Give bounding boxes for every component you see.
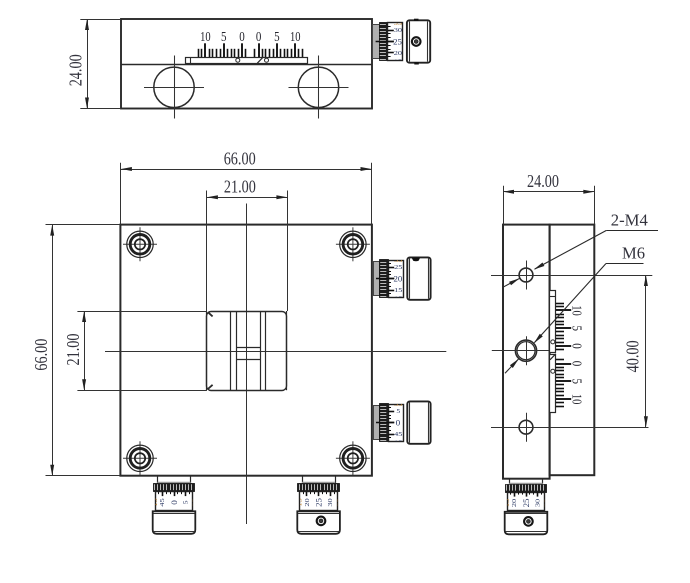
top micrometer thimble graduation band [380,23,388,61]
svg-text:10: 10 [568,394,583,405]
svg-text:20: 20 [512,499,518,507]
top view: right knob centerline vertical [318,56,320,119]
upper right micrometer knob [407,257,430,299]
svg-text:15: 15 [394,288,402,294]
front view: horizontal centerline [105,351,446,353]
svg-text:24.00: 24.00 [527,171,559,191]
right view: 24.00 dimension line [503,191,594,193]
svg-text:35: 35 [192,498,198,506]
svg-text:25: 25 [522,499,531,508]
front view: 66.00 top dimension line [121,169,372,171]
right view: 40.00 dimension line [645,275,647,427]
right view: M6 leader shoulder [606,263,644,265]
svg-text:2-M4: 2-M4 [611,210,648,229]
right view: scale index pointer [550,354,556,360]
front view: vertical centerline [246,204,248,525]
top view: scale screw left [236,58,240,62]
bottom right micrometer barrel numbers [298,498,343,507]
svg-text:M6: M6 [622,243,645,262]
right view: M6 center hole [515,340,536,361]
bottom left micrometer knob [153,511,196,534]
svg-text:5: 5 [221,30,227,45]
bottom right micrometer graduation lines [306,492,308,496]
right view: lower hole centerline [491,427,649,429]
top micrometer knob screw [412,37,421,46]
front view: 21.00 left dimension line [84,311,86,390]
svg-text:24.00: 24.00 [66,54,86,86]
svg-text:30: 30 [328,498,334,506]
svg-text:0: 0 [256,30,262,45]
top view: right knob centerline horizontal [289,87,349,89]
right view: M6 leader upper segment [534,264,606,343]
lower right micrometer knob [407,401,430,443]
lower right micrometer stem [374,406,380,440]
right view: scale screw upper [551,340,555,344]
svg-text:25: 25 [393,37,402,46]
svg-text:20: 20 [394,275,403,284]
front view: 66.00 left dimension line [52,225,54,476]
svg-text:30: 30 [536,499,542,507]
top view: plate split line [121,64,372,66]
front view: slot corner relief marks [208,312,213,316]
right view: 24.00 dimension extension lines [503,186,505,225]
right view: 2-M4 leader upper segment [535,231,607,270]
svg-text:35: 35 [544,499,550,507]
bottom right micrometer knob [297,511,340,534]
right view: scale ticks lower group [556,359,564,361]
upper right micrometer stem [374,262,380,296]
svg-text:0: 0 [568,343,583,349]
svg-text:10: 10 [290,30,301,45]
right view: 2-M4 leader shoulder [606,230,658,232]
right view bottom micrometer knob [505,512,548,535]
front view: 21.00 top dimension extension lines [206,191,208,312]
right view bottom micrometer stem [509,479,511,484]
right view: vertical scale bar upper [550,291,556,353]
right view: 2-M4 leader lower segment [503,278,520,287]
right view: vertical scale bar lower [550,355,556,413]
svg-text:21.00: 21.00 [63,334,83,366]
top view: stage body outline [121,19,372,109]
front view: stage body outline [120,225,372,476]
front view: top-right socket head screw [336,227,370,261]
right view: scale ticks upper group [556,349,564,351]
right view: 2-M4 lower hole [519,420,533,434]
svg-text:10: 10 [200,30,211,45]
svg-text:21.00: 21.00 [224,177,256,197]
top view: left knob centerline vertical [174,56,176,119]
top micrometer graduation lines [388,30,394,32]
front view: top-left socket head screw [123,227,157,261]
svg-text:30: 30 [394,28,402,34]
top view: right knob circle [298,67,338,107]
top view: scale ticks left group [245,49,247,57]
svg-text:0: 0 [170,500,179,505]
svg-text:35: 35 [394,402,402,408]
svg-text:66.00: 66.00 [31,339,51,371]
svg-text:20: 20 [394,51,402,57]
upper right micrometer thimble graduation band [380,260,389,298]
bottom left micrometer thimble graduation band [154,484,195,492]
bottom right micrometer thimble graduation band [298,484,340,492]
svg-text:0: 0 [568,361,583,367]
front view: 21.00 top dimension line [207,197,288,199]
top view: 24.00 dimension extension lines [80,19,121,21]
right view: middle hole centerline [492,350,553,352]
right view: M6 center hole vertical centerline [526,336,528,365]
right view: 2-M4 upper hole vertical centerline [526,261,528,290]
right view: base column outline [503,225,550,479]
bottom left micrometer barrel numbers [153,498,198,506]
top view: left knob centerline horizontal [144,87,204,89]
right view bottom micrometer barrel numbers [505,499,550,508]
front view: carriage guide lines [230,311,232,390]
top view: scale screw right [265,58,269,62]
svg-text:5: 5 [396,409,400,415]
svg-text:5: 5 [274,30,280,45]
svg-text:45: 45 [394,432,402,438]
right view bottom micrometer graduation lines [514,492,516,496]
lower right micrometer barrel numbers [394,402,402,446]
lower right micrometer graduation lines [388,411,394,413]
svg-text:15: 15 [505,499,511,507]
front view: bottom-right socket head screw [336,441,370,475]
svg-text:5: 5 [184,500,190,504]
bottom left micrometer graduation lines [162,492,164,496]
front view: 21.00 left dimension extension lines [77,311,207,313]
bottom right micrometer knob screw [317,517,326,526]
front view: central carriage slot rounded window [207,312,287,391]
svg-text:15: 15 [153,498,159,506]
top view: vernier scale bar [186,58,308,64]
svg-text:35: 35 [394,258,402,264]
top view: left knob circle [154,67,194,107]
front view: 66.00 left dimension extension lines [46,224,121,226]
right view: 2-M4 upper hole [519,268,533,282]
bottom right micrometer stem [302,476,304,484]
right view bottom micrometer knob screw [524,517,533,526]
right view: 2-M4 lower hole vertical centerline [526,413,528,442]
svg-text:66.00: 66.00 [224,148,256,168]
svg-text:40.00: 40.00 [623,340,643,372]
front view: 66.00 top dimension extension lines [120,163,122,225]
right view bottom micrometer thimble graduation band [506,485,547,493]
svg-text:10: 10 [568,305,583,316]
top view: 24.00 dimension line [87,19,89,109]
svg-text:25: 25 [394,265,402,271]
svg-text:5: 5 [568,379,583,385]
svg-text:25: 25 [315,498,324,507]
top micrometer knob [407,20,430,62]
top view: scale index pointer [257,57,263,63]
lower right micrometer thimble graduation band [380,404,389,442]
upper right micrometer graduation lines [388,267,394,269]
top micrometer stem [373,25,380,59]
right view: M6 leader lower segment [505,359,519,374]
right view: scale bar end cap [550,296,556,298]
right view: moving column outline [550,225,595,476]
svg-text:0: 0 [239,30,245,45]
front view: bottom-left socket head screw [123,441,157,475]
svg-text:5: 5 [568,325,583,331]
right view: upper hole centerline [491,275,652,277]
top view: scale ticks right group [254,49,256,57]
svg-text:15: 15 [298,498,304,506]
svg-text:0: 0 [396,419,401,428]
front view: slot straight side edges [206,311,208,390]
top micrometer barrel numbers [393,21,402,65]
front view: carriage center block lines [236,347,260,349]
svg-text:20: 20 [305,498,311,506]
bottom left micrometer stem [157,476,159,484]
svg-text:45: 45 [160,498,166,506]
right view: scale screw lower [551,369,555,373]
top view: scale bar end cap [190,57,192,64]
upper right micrometer barrel numbers [394,258,403,302]
